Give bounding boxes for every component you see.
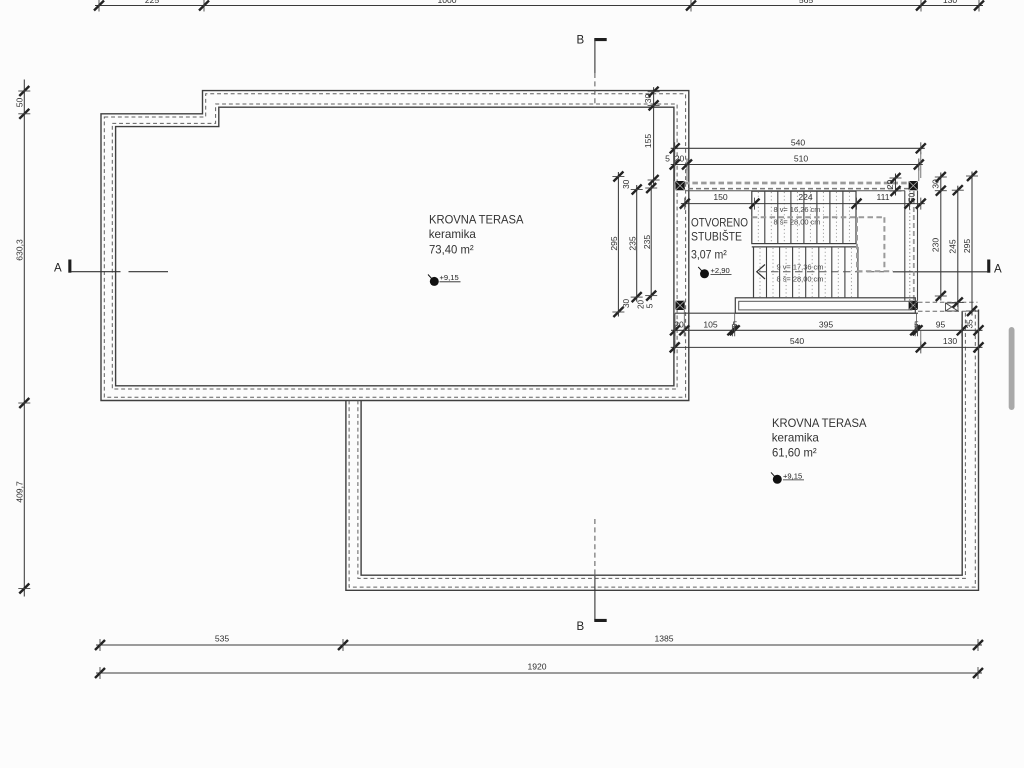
stair bench outer — [735, 298, 915, 313]
svg-text:30: 30 — [622, 179, 631, 189]
svg-text:B: B — [577, 35, 585, 47]
svg-text:395: 395 — [819, 319, 834, 329]
section mark A left — [54, 260, 168, 275]
svg-text:+9,15: +9,15 — [783, 471, 802, 480]
svg-text:1385: 1385 — [654, 634, 673, 644]
stair corner post bottom-left — [675, 301, 684, 310]
svg-text:295: 295 — [962, 239, 972, 254]
extension lines above stair — [675, 152, 921, 181]
dimension top chain 225/1000/565/130 — [94, 0, 984, 12]
dimension chain below stair 540/130 — [670, 336, 984, 353]
dimension chain below stair 20/105/5/395/5/95/35 — [670, 319, 984, 336]
dimension 510 above stair — [665, 154, 924, 171]
svg-text:OTVORENO: OTVORENO — [691, 215, 748, 229]
elevation marker big terrace +9,15 — [428, 273, 461, 286]
svg-text:+9,15: +9,15 — [440, 273, 459, 282]
svg-text:235: 235 — [642, 235, 652, 250]
svg-text:630,3: 630,3 — [14, 239, 24, 261]
svg-text:105: 105 — [703, 319, 718, 329]
svg-text:20: 20 — [637, 300, 646, 310]
svg-text:50: 50 — [14, 98, 24, 108]
section mark B top — [577, 35, 607, 108]
small dim 20 top-right of stair — [885, 173, 901, 196]
svg-text:409,7: 409,7 — [14, 481, 24, 503]
dimension chain 30/155 at top wall — [643, 87, 659, 185]
svg-text:150: 150 — [713, 192, 728, 202]
svg-text:8 v= 16,26 cm: 8 v= 16,26 cm — [774, 205, 821, 214]
stair void dashed outline — [752, 217, 893, 271]
svg-text:245: 245 — [948, 239, 958, 254]
stair enclosure top dashed beam — [675, 183, 918, 191]
text right terrace label — [772, 416, 867, 459]
svg-text:5: 5 — [665, 154, 670, 164]
stair bench inner — [739, 301, 912, 310]
wall big-terrace outer dashed inset — [104, 94, 685, 398]
svg-text:295: 295 — [609, 236, 619, 251]
svg-text:3,07 m²: 3,07 m² — [691, 248, 727, 262]
stair direction arrow — [757, 265, 884, 280]
svg-text:5: 5 — [733, 319, 738, 329]
small labels left stair cluster — [622, 179, 655, 309]
svg-text:510: 510 — [794, 154, 809, 164]
dimension chain left of stair 295 — [609, 172, 624, 318]
svg-text:9 v= 17,36 cm: 9 v= 17,36 cm — [777, 263, 824, 272]
svg-text:235: 235 — [628, 236, 638, 251]
svg-text:KROVNA TERASA: KROVNA TERASA — [429, 213, 524, 227]
dimension 540 above stair — [670, 137, 926, 154]
svg-text:50: 50 — [907, 193, 917, 203]
elevation marker stair +2,90 — [698, 266, 731, 279]
svg-text:20: 20 — [885, 180, 895, 190]
section mark B bottom — [577, 519, 607, 633]
svg-text:1920: 1920 — [527, 662, 546, 672]
wall right-terrace outer dashed inset — [349, 310, 975, 588]
svg-text:130: 130 — [943, 0, 958, 5]
svg-text:30: 30 — [931, 179, 941, 189]
svg-text:540: 540 — [790, 336, 805, 346]
stair corner post bottom-right — [909, 301, 918, 310]
svg-text:225: 225 — [145, 0, 160, 5]
stair corner post top-right — [909, 181, 918, 190]
extension lines below stair — [675, 310, 962, 347]
svg-text:30: 30 — [643, 94, 653, 104]
svg-text:keramika: keramika — [772, 431, 820, 445]
stair bottom edge line — [675, 312, 918, 314]
wall right-terrace outer outline — [346, 310, 979, 591]
dimension chain right of stair 295 — [962, 171, 978, 316]
wall right-terrace inner outline — [361, 312, 962, 576]
dimension chain right of stair 30/230 — [931, 172, 947, 301]
svg-text:8 š= 28,00 cm: 8 š= 28,00 cm — [777, 275, 824, 284]
dimension chain left of stair 235 b — [642, 183, 657, 301]
svg-text:8 š= 28,00 cm: 8 š= 28,00 cm — [774, 218, 821, 227]
svg-text:keramika: keramika — [429, 227, 477, 241]
svg-text:5: 5 — [646, 303, 655, 308]
wall big-terrace inner dashed inset — [112, 104, 677, 389]
svg-text:73,40 m²: 73,40 m² — [429, 243, 474, 257]
stair upper flight — [752, 191, 856, 247]
svg-text:111: 111 — [876, 192, 889, 202]
svg-text:155: 155 — [643, 134, 653, 149]
elevation marker right terrace +9,15 — [771, 471, 804, 484]
svg-text:35: 35 — [966, 319, 975, 329]
svg-text:1000: 1000 — [437, 0, 456, 5]
dimension 150/224/111/50 inside stair — [680, 192, 926, 209]
wall big-terrace outer outline — [101, 91, 689, 401]
svg-text:540: 540 — [791, 137, 806, 147]
dimension chain right of stair 245 — [948, 185, 964, 307]
svg-text:130: 130 — [943, 336, 958, 346]
wall right-terrace inner dashed inset — [358, 312, 966, 579]
stair right wall — [905, 191, 918, 301]
svg-text:A: A — [54, 263, 62, 275]
svg-text:224: 224 — [798, 192, 813, 202]
svg-text:B: B — [577, 621, 585, 633]
stair lower flight — [754, 247, 858, 298]
stair corner post top-left — [675, 181, 684, 190]
svg-text:20: 20 — [675, 154, 685, 164]
svg-text:61,60 m²: 61,60 m² — [772, 445, 817, 459]
svg-text:A: A — [994, 264, 1002, 276]
text stair label — [691, 215, 748, 261]
dimension bottom chain 535/1385 — [95, 634, 983, 652]
dimension bottom chain 1920 — [95, 662, 983, 680]
svg-text:535: 535 — [215, 634, 230, 644]
dimension chain left of stair 235 a — [628, 185, 643, 303]
small crossed box on hidden wall — [946, 303, 959, 311]
svg-text:30: 30 — [622, 299, 631, 309]
dimension left chain 50/630,3/409,7 — [14, 80, 30, 597]
svg-text:STUBIŠTE: STUBIŠTE — [691, 229, 742, 243]
svg-text:+2,90: +2,90 — [711, 266, 730, 275]
svg-text:95: 95 — [936, 319, 946, 329]
text big terrace label — [429, 213, 524, 257]
hidden wall dashes to right wall — [918, 302, 978, 311]
svg-text:565: 565 — [799, 0, 814, 5]
section mark A right — [893, 260, 1002, 276]
svg-text:230: 230 — [931, 238, 941, 253]
scrollbar thumb — [1009, 327, 1015, 410]
wall big-terrace inner outline — [116, 107, 674, 386]
svg-text:20: 20 — [674, 319, 684, 329]
svg-text:KROVNA TERASA: KROVNA TERASA — [772, 416, 867, 430]
